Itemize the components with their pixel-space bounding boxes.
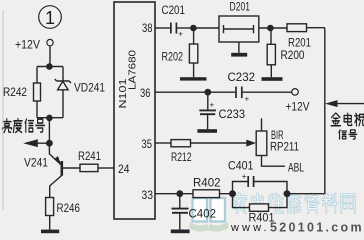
svg-text:C201: C201 <box>162 5 186 17</box>
circled number 1 <box>39 6 62 29</box>
wire right vertical bus <box>324 28 326 194</box>
resistor R246 <box>46 198 54 216</box>
ground (R246) <box>41 230 59 234</box>
ground (C402) <box>171 230 190 234</box>
svg-text:ABL: ABL <box>288 162 304 174</box>
ground (R200) <box>262 77 283 81</box>
resistor R241 <box>80 164 98 171</box>
svg-text:520101.com: 520101.com <box>270 221 364 235</box>
wire pin 35 <box>155 142 171 144</box>
resistor R212 <box>171 140 191 147</box>
svg-text:R200: R200 <box>281 50 305 62</box>
svg-text:35: 35 <box>142 137 153 151</box>
svg-text:+12V: +12V <box>15 40 40 52</box>
wire +12V to node <box>49 46 51 67</box>
transistor V241 (PNP) <box>49 143 61 165</box>
svg-text:C402: C402 <box>189 209 217 221</box>
svg-text:D201: D201 <box>230 2 251 14</box>
svg-text:+12V: +12V <box>286 102 310 114</box>
label 亮度信号 (brightness signal) <box>2 119 11 133</box>
capacitor C232 <box>236 87 242 99</box>
svg-text:+: + <box>210 101 215 110</box>
capacitor C402 <box>179 194 181 209</box>
label 全电视信号 (composite video signal) <box>331 113 340 126</box>
ground (R202) <box>180 77 207 80</box>
svg-text:36: 36 <box>140 86 151 100</box>
svg-text:RP211: RP211 <box>270 141 299 153</box>
brightness signal arrow (points left) <box>38 142 50 144</box>
wire pin 33 <box>155 193 233 195</box>
svg-text:BIR: BIR <box>271 130 284 142</box>
svg-text:+: + <box>245 95 250 104</box>
svg-text:R212: R212 <box>171 152 192 164</box>
svg-text:C232: C232 <box>228 72 256 84</box>
svg-text:+: + <box>178 30 183 39</box>
wire R241 to pin 24 <box>98 167 114 169</box>
svg-text:24: 24 <box>118 162 130 176</box>
svg-text:C233: C233 <box>219 109 246 121</box>
ground (C233) <box>197 129 217 133</box>
resistor R200 <box>270 28 272 44</box>
resistor R401 <box>233 194 250 208</box>
capacitor C401 <box>233 182 248 194</box>
resistor R201 <box>287 24 307 32</box>
svg-text:R401: R401 <box>249 213 275 225</box>
wiper arrow into RP211 <box>246 140 256 147</box>
node: top of R242/VD241 parallel <box>37 66 63 68</box>
resistor R402 <box>193 190 220 198</box>
node C201/R202/D201 <box>191 25 196 30</box>
scan edge artifact <box>2 10 4 210</box>
+12V terminal (top left) <box>47 39 53 45</box>
composite video input arrow <box>337 103 364 105</box>
potentiometer RP211 <box>261 118 263 131</box>
wire base to R241 <box>62 167 80 169</box>
svg-text:VD241: VD241 <box>74 83 105 95</box>
wire down to brightness tap <box>48 118 50 143</box>
zener diode VD241 <box>62 67 64 82</box>
op-amp/IC N101 LA7680 <box>114 2 155 219</box>
svg-text:38: 38 <box>142 21 153 35</box>
ground (D201) <box>231 53 247 57</box>
node junction below parallel pair <box>47 64 52 69</box>
svg-text:R402: R402 <box>193 177 221 189</box>
watermark: book icon <box>193 198 226 222</box>
delay line D201 <box>219 16 259 42</box>
svg-text:C401: C401 <box>228 160 254 172</box>
watermark: 家电维修资料网 <box>233 194 246 213</box>
svg-text:V241: V241 <box>24 158 48 170</box>
resistor R202 <box>193 28 195 44</box>
wire pin 36 <box>155 91 235 93</box>
resistor R242 <box>36 67 38 84</box>
capacitor C233 (electrolytic) <box>207 92 209 110</box>
svg-text:33: 33 <box>142 188 154 202</box>
svg-text:LA7680: LA7680 <box>128 49 139 90</box>
svg-text:R202: R202 <box>162 51 184 63</box>
svg-text:1: 1 <box>45 8 55 28</box>
wire bottom of parallel pair <box>37 117 63 119</box>
wire D201 to R201 <box>259 27 287 29</box>
svg-text:R242: R242 <box>3 87 27 99</box>
wire pin 38 to C201 <box>155 27 170 29</box>
+12V terminal (right) <box>292 89 299 96</box>
svg-text:R241: R241 <box>78 151 101 163</box>
svg-text:R201: R201 <box>288 37 311 49</box>
svg-text:R246: R246 <box>57 203 81 215</box>
svg-text:+: + <box>242 172 247 181</box>
capacitor C201 <box>171 23 177 34</box>
